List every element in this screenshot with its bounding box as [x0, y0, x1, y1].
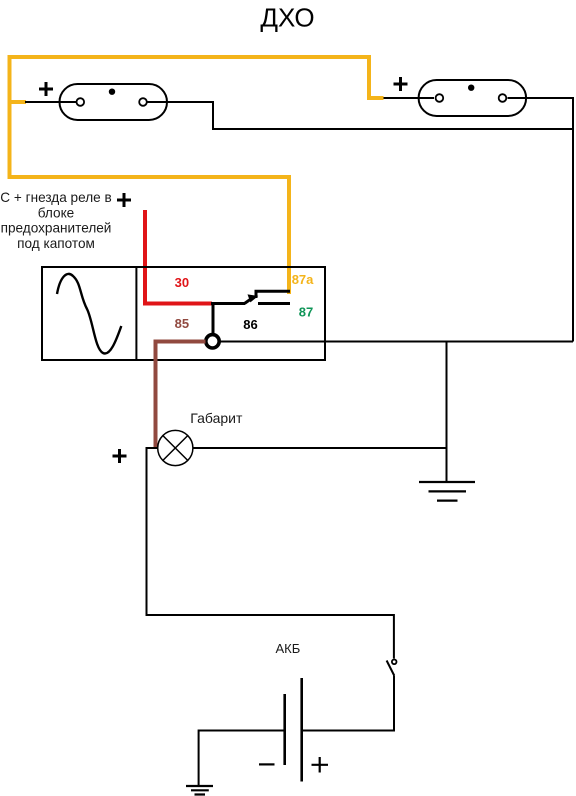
lamp EL2 right terminal — [499, 94, 507, 102]
switch S1 fixed contact — [392, 660, 397, 665]
wire black: right lamp left lead — [384, 97, 435, 99]
relay contact moving arm — [245, 298, 253, 304]
svg-text:30: 30 — [175, 275, 189, 290]
wire black: left lamp left lead — [25, 101, 76, 103]
battery GB1 minus plate — [283, 694, 286, 765]
lamp Габарит circle — [158, 430, 193, 465]
relay contact arm arrowhead — [248, 294, 259, 302]
relay K1 box — [42, 267, 325, 360]
lamp EL2 (right DRL) body — [419, 80, 526, 116]
relay NO contact 87 — [258, 302, 290, 305]
wire black: right lamp right lead and right-side vertical — [508, 98, 574, 342]
lamp EL1 (left DRL) body — [60, 84, 168, 120]
svg-text:87: 87 — [299, 305, 313, 320]
battery minus sign — [259, 763, 275, 765]
plus sign at right lamp — [394, 77, 408, 91]
svg-text:Габарит: Габарит — [190, 410, 243, 426]
wire black: battery minus to ground — [199, 731, 284, 787]
battery plus sign — [312, 757, 329, 773]
wire orange stub to left lamp — [10, 100, 27, 104]
ground symbol bottom — [186, 786, 213, 795]
lamp Габарит X cross — [163, 436, 188, 461]
plus sign at fuse feed — [117, 193, 131, 207]
wire black: long wire from node 86 to right side — [220, 341, 574, 343]
svg-text:86: 86 — [243, 317, 257, 332]
wire black: ground tap vertical — [446, 342, 448, 483]
svg-text:под капотом: под капотом — [17, 236, 95, 251]
wire red: +12V feed to relay pin 30 — [145, 210, 212, 304]
lamp EL2 top dot — [468, 85, 474, 91]
svg-text:предохранителей: предохранителей — [1, 221, 112, 236]
ground symbol right — [419, 482, 475, 501]
lamp EL1 top dot — [109, 89, 115, 95]
wire black: pin 30 bar down to coil node — [212, 304, 215, 336]
relay K1 divider — [135, 267, 137, 360]
node 86 junction circle — [206, 335, 219, 348]
battery GB1 plus plate — [300, 678, 303, 782]
wire black: marker lamp right lead to ground tap — [193, 447, 447, 449]
svg-text:АКБ: АКБ — [276, 641, 301, 656]
wire orange: feed loop from relay 87a to both DRL lamps — [10, 57, 384, 294]
wire black: left lamp right lead down and across — [148, 102, 574, 129]
relay contact common bar from pin 30 — [211, 302, 245, 305]
wire dark-red: pin 85 to marker lamp — [156, 342, 206, 448]
svg-text:С + гнезда реле в: С + гнезда реле в — [0, 190, 111, 205]
wire black: switch to battery plus — [302, 676, 394, 731]
lamp EL1 left terminal — [77, 98, 85, 106]
svg-text:блоке: блоке — [38, 205, 74, 220]
lamp EL2 left terminal — [436, 94, 444, 102]
svg-text:85: 85 — [175, 316, 189, 331]
wire black: marker lamp left lead down to battery circuit — [147, 448, 394, 659]
relay NC contact to 87a — [256, 291, 290, 298]
svg-text:ДХО: ДХО — [260, 3, 314, 33]
svg-text:87a: 87a — [292, 272, 314, 287]
lamp EL1 right terminal — [139, 98, 147, 106]
plus sign at left lamp — [39, 82, 53, 96]
plus sign at marker lamp — [113, 449, 127, 463]
switch S1 blade — [387, 661, 395, 676]
relay K1 sine symbol — [57, 274, 121, 354]
